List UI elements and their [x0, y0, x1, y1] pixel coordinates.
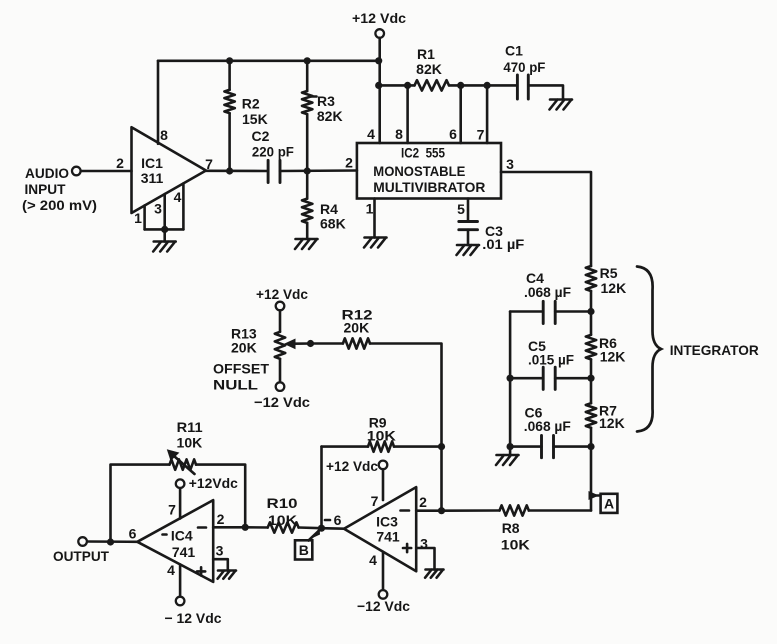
op-amp IC3 741 triangle: [344, 487, 416, 571]
svg-text:−12 Vdc: −12 Vdc: [357, 598, 410, 614]
svg-text:2: 2: [345, 155, 353, 171]
wire R1 bus left: [379, 84, 415, 87]
svg-text:82K: 82K: [416, 61, 442, 77]
svg-text:12K: 12K: [600, 349, 626, 365]
wire IC1 pin 4: [182, 183, 185, 229]
svg-text:6: 6: [129, 526, 137, 542]
node junction IC2 pin8 bus: [404, 82, 411, 89]
svg-text:1: 1: [134, 210, 142, 226]
svg-text:20K: 20K: [344, 320, 370, 336]
op-amp IC1 311 comparator triangle: [132, 127, 207, 213]
resistor R2 15K: [228, 61, 231, 90]
svg-text:.068 µF: .068 µF: [524, 284, 571, 300]
output terminal: [78, 537, 87, 546]
svg-text:R10: R10: [267, 495, 298, 511]
power terminal -12 Vdc (IC4): [176, 597, 185, 606]
node junction IC3 pin2/R8: [438, 507, 445, 514]
svg-text:4: 4: [174, 189, 182, 205]
wire IC1 pins bottom bar: [145, 228, 184, 231]
wire IC3 pin 6 to apex: [322, 527, 345, 530]
svg-text:6: 6: [334, 512, 342, 528]
node B stub: [309, 528, 322, 540]
node A arrow stub: [589, 491, 600, 500]
wire C2 to IC2 pin 2: [280, 169, 357, 172]
wire IC1 pin 3: [163, 194, 166, 229]
resistor R4 68K: [302, 199, 312, 223]
svg-text:OFFSET: OFFSET: [213, 361, 269, 377]
svg-text:IC4: IC4: [171, 527, 193, 543]
wire IC3 pin 7: [382, 469, 385, 500]
svg-text:4: 4: [167, 562, 175, 578]
capacitor C3 .01 uF: [459, 222, 478, 230]
node junction C2/R4/pin2: [304, 167, 311, 174]
wire +12V vertical down to IC2 pin 4: [378, 38, 381, 143]
resistor R11 zigzag: [170, 459, 197, 469]
node junction R7/C6: [587, 443, 594, 450]
node junction +12V / bus1: [375, 57, 382, 64]
svg-text:INPUT: INPUT: [25, 181, 66, 197]
power terminal -12 Vdc (IC3): [379, 590, 388, 599]
svg-text:6: 6: [449, 126, 457, 142]
minus sign IC3 pin 2: [401, 509, 410, 512]
ground (integrator rail): [496, 455, 519, 465]
node B box: [295, 540, 312, 559]
resistor R7 12K: [590, 378, 593, 403]
resistor R10 10K: [245, 526, 268, 529]
node junction R2 top: [226, 57, 233, 64]
node junction output: [107, 538, 114, 545]
svg-text:.015 µF: .015 µF: [528, 352, 574, 368]
ground (right of C1): [550, 100, 573, 110]
wire IC2 pin 3 output: [501, 172, 591, 266]
svg-text:2: 2: [217, 511, 225, 527]
ground (under C3): [457, 245, 480, 255]
brace integrator: [637, 267, 661, 432]
svg-text:4: 4: [369, 552, 377, 568]
wire down to IC1 pin 8: [157, 61, 160, 144]
node junction R6/C5: [587, 375, 594, 382]
wire feedback right: [196, 465, 245, 528]
svg-text:IC2 555: IC2 555: [401, 145, 445, 161]
node junction IC4 pin2: [242, 524, 249, 531]
wire C5 left: [510, 377, 543, 380]
ground (IC3 pin 3): [425, 570, 443, 578]
svg-text:R5: R5: [600, 265, 618, 281]
resistor R9 10K: [322, 445, 369, 448]
node junction IC1 ground bar: [161, 226, 168, 233]
svg-text:OUTPUT: OUTPUT: [53, 548, 109, 564]
wire C4 right: [555, 310, 591, 313]
svg-text:20K: 20K: [231, 340, 257, 356]
power terminal -12 Vdc (R13 bottom): [276, 382, 285, 391]
minus sign IC4 pin 2: [198, 526, 206, 529]
capacitor C1 470 pF: [517, 75, 528, 99]
wire R1 to C1: [449, 84, 517, 87]
svg-text:MULTIVIBRATOR: MULTIVIBRATOR: [373, 179, 485, 195]
input terminal AUDIO INPUT: [72, 167, 81, 176]
node junction R5/C4: [587, 308, 594, 315]
wire IC4 pin 2: [213, 526, 245, 529]
IC IC2 555 monostable multivibrator box: [357, 143, 501, 199]
svg-text:IC1: IC1: [141, 155, 163, 171]
wire IC2 pin 1 to ground: [373, 199, 376, 238]
svg-text:10K: 10K: [367, 428, 396, 444]
node junction rail/C5: [507, 375, 514, 382]
svg-text:MONOSTABLE: MONOSTABLE: [373, 163, 465, 179]
capacitor C6 .068 uF: [542, 436, 554, 458]
svg-text:+12 Vdc: +12 Vdc: [326, 458, 378, 474]
svg-text:2: 2: [116, 155, 124, 171]
svg-text:.01 µF: .01 µF: [482, 236, 524, 252]
wire IC4 pin 7: [179, 488, 182, 519]
wiper arrow R13: [294, 342, 311, 345]
svg-text:10K: 10K: [268, 512, 297, 528]
wire C6 left: [510, 445, 541, 448]
svg-text:C1: C1: [505, 43, 523, 59]
wire integrator down to node A: [590, 447, 593, 511]
svg-text:C2: C2: [252, 128, 270, 144]
plus sign IC4 pin 3: [197, 567, 205, 575]
svg-text:R11: R11: [177, 419, 203, 435]
svg-text:8: 8: [160, 127, 168, 143]
wire IC1 pin 1: [143, 205, 146, 229]
wire integrator left rail: [509, 312, 512, 456]
resistor R1 82K: [415, 80, 449, 90]
wire IC2 pin 8: [406, 85, 409, 143]
wire C4 left: [510, 310, 543, 313]
node junction wiper/R12: [307, 340, 314, 347]
svg-text:R2: R2: [242, 96, 260, 112]
resistor R12 20K: [343, 338, 370, 348]
svg-text:.068 µF: .068 µF: [524, 418, 571, 434]
arrow R11 wiper: [174, 456, 195, 474]
svg-text:−12 Vdc: −12 Vdc: [254, 394, 310, 410]
svg-text:741: 741: [172, 544, 196, 560]
wire C1 to ground: [528, 85, 563, 99]
svg-text:5: 5: [457, 201, 465, 217]
svg-text:3: 3: [154, 201, 162, 217]
svg-text:+12 Vdc: +12 Vdc: [352, 10, 406, 26]
potentiometer R13 20K OFFSET NULL: [279, 310, 282, 332]
wire audio input to IC1 pin 2: [81, 170, 132, 173]
pin 6 label IC3: [325, 519, 330, 522]
ground (under IC1): [153, 242, 176, 252]
svg-text:220 pF: 220 pF: [252, 144, 294, 160]
wire IC4 pin 3 to ground: [213, 559, 228, 570]
svg-text:1: 1: [366, 201, 374, 217]
svg-text:68K: 68K: [320, 216, 346, 232]
node junction R2 bottom / pin7: [226, 167, 233, 174]
svg-text:7: 7: [477, 127, 485, 143]
wire C5 right: [555, 377, 591, 380]
svg-text:4: 4: [367, 126, 375, 142]
svg-text:311: 311: [141, 170, 164, 186]
wire IC2 pin 7: [486, 85, 489, 143]
svg-text:10K: 10K: [177, 435, 203, 451]
svg-text:3: 3: [216, 543, 224, 559]
svg-text:82K: 82K: [317, 108, 343, 124]
wire bus1 horizontal: [158, 59, 379, 62]
resistor R6 12K: [590, 312, 593, 335]
svg-text:10K: 10K: [501, 537, 530, 553]
node junction IC2 pin7 bus: [484, 82, 491, 89]
wire IC2 pin 6: [459, 85, 462, 143]
resistor R3 82K: [306, 61, 309, 91]
svg-text:IC3: IC3: [376, 514, 398, 530]
svg-text:B: B: [299, 542, 309, 558]
wire C6 right: [554, 445, 592, 448]
wire IC3 pin 2: [416, 509, 441, 512]
node junction R1 bus left: [375, 82, 382, 89]
svg-text:741: 741: [376, 529, 400, 545]
svg-text:(> 200 mV): (> 200 mV): [22, 197, 97, 213]
svg-text:12K: 12K: [601, 280, 627, 296]
wire wiper to R12: [311, 342, 343, 345]
svg-text:2: 2: [419, 494, 427, 510]
svg-text:+12 Vdc: +12 Vdc: [256, 286, 308, 302]
node A box: [601, 494, 618, 513]
capacitor C2 220 pF: [268, 160, 280, 182]
wire R12 to vertical: [370, 344, 442, 511]
ground (IC4 pin 3): [218, 571, 236, 579]
svg-text:15K: 15K: [242, 111, 268, 127]
wire C3 to ground: [467, 230, 470, 245]
wire IC4 output: [87, 540, 137, 543]
svg-text:8: 8: [395, 126, 403, 142]
op-amp IC4 741 triangle: [137, 500, 213, 582]
wire IC1 pin 7 output to C2: [206, 170, 268, 173]
capacitor C5 .015 uF: [543, 367, 555, 389]
svg-text:470 pF: 470 pF: [503, 59, 545, 75]
tick before R3 label: [312, 95, 317, 98]
svg-text:AUDIO: AUDIO: [25, 165, 69, 181]
svg-text:NULL: NULL: [213, 377, 259, 393]
node junction R12-line/R9: [438, 443, 445, 450]
svg-text:7: 7: [168, 502, 176, 518]
svg-text:R1: R1: [417, 46, 435, 62]
wire R9 left vertical to IC3 pin 6: [320, 447, 323, 529]
wire IC1 to ground: [163, 229, 166, 241]
node junction R3 top: [304, 57, 311, 64]
resistor R8 10K: [442, 509, 500, 512]
svg-text:R3: R3: [317, 93, 335, 109]
node junction IC2 pin6 bus: [457, 82, 464, 89]
svg-text:7: 7: [371, 493, 379, 509]
svg-text:− 12 Vdc: − 12 Vdc: [165, 610, 222, 626]
power terminal +12Vdc (IC4): [176, 479, 185, 488]
node junction rail/C6: [507, 443, 514, 450]
wire IC2 pin 5 to C3: [467, 199, 470, 222]
svg-text:12K: 12K: [599, 415, 625, 431]
capacitor C4 .068 uF: [543, 301, 555, 323]
ground (under R4): [295, 239, 318, 249]
svg-text:+12Vdc: +12Vdc: [189, 475, 238, 491]
svg-text:3: 3: [506, 156, 514, 172]
wire IC3 pin 4: [382, 552, 385, 590]
plus sign IC3 pin 3: [403, 544, 411, 552]
ground (IC2 pin 1): [364, 238, 387, 248]
svg-text:3: 3: [420, 536, 428, 552]
svg-text:R8: R8: [502, 520, 520, 536]
wire IC4 pin 4: [179, 564, 182, 596]
wire IC4 feedback loop: [111, 465, 170, 542]
svg-text:INTEGRATOR: INTEGRATOR: [670, 342, 759, 358]
wire IC3 pin 3 to ground: [416, 548, 434, 570]
svg-text:A: A: [604, 496, 614, 512]
node junction IC3 pin 6: [318, 525, 325, 532]
resistor R5 12K: [586, 266, 596, 291]
